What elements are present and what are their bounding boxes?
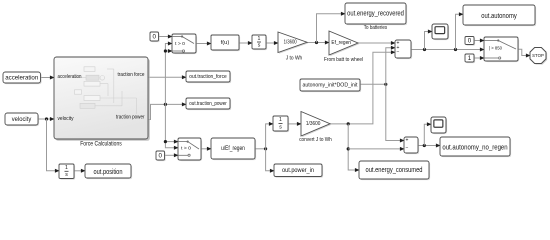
svg-text:1/3600: 1/3600 (306, 121, 321, 127)
svg-text:autonomy_init*DOD_init: autonomy_init*DOD_init (303, 82, 358, 88)
svg-text:s: s (279, 124, 282, 130)
svg-text:acceleration: acceleration (5, 74, 38, 81)
svg-text:velocity: velocity (58, 116, 74, 122)
svg-text:out.energy_recovered: out.energy_recovered (347, 10, 404, 17)
svg-text:0: 0 (159, 152, 163, 159)
svg-text:t > 0: t > 0 (181, 146, 192, 151)
svg-text:Force Calculations: Force Calculations (80, 140, 122, 147)
svg-text:To batteries: To batteries (364, 25, 387, 31)
svg-text:s: s (65, 172, 68, 178)
svg-text:1: 1 (258, 36, 261, 42)
svg-text:acceleration: acceleration (58, 74, 82, 80)
svg-text:traction force: traction force (118, 72, 145, 78)
svg-text:out.position: out.position (94, 167, 123, 176)
svg-text:0: 0 (153, 33, 157, 40)
svg-text:t > 0: t > 0 (175, 41, 186, 46)
svg-text:velocity: velocity (12, 116, 32, 123)
svg-text:u/Ef_regen: u/Ef_regen (221, 146, 245, 152)
svg-text:From batt to wheel: From batt to wheel (324, 57, 363, 63)
svg-text:convert J to Wh: convert J to Wh (299, 137, 332, 143)
svg-text:out.power_in: out.power_in (282, 167, 314, 174)
svg-text:out.autonomy_no_regen: out.autonomy_no_regen (442, 142, 507, 151)
svg-text:−: − (397, 49, 400, 55)
svg-text:−: − (406, 146, 409, 152)
svg-text:J to Wh: J to Wh (286, 56, 303, 62)
svg-text:out.traction_force: out.traction_force (189, 74, 227, 80)
svg-text:out.traction_power: out.traction_power (189, 101, 227, 107)
svg-text:0: 0 (468, 37, 472, 44)
svg-text:out.autonomy: out.autonomy (481, 11, 517, 20)
svg-text:out.energy_consumed: out.energy_consumed (366, 167, 423, 174)
svg-text:+: + (406, 138, 409, 144)
svg-text:Ef_regen: Ef_regen (331, 40, 351, 46)
svg-text:1/3600: 1/3600 (284, 39, 297, 45)
svg-text:1: 1 (65, 165, 68, 171)
svg-text:traction power: traction power (116, 114, 145, 120)
svg-text:1: 1 (279, 117, 282, 123)
svg-text:STOP: STOP (532, 53, 544, 58)
svg-text:f(u): f(u) (221, 40, 230, 46)
svg-text:1: 1 (468, 55, 472, 62)
svg-text:| > 850: | > 850 (489, 46, 502, 52)
svg-text:s: s (258, 43, 261, 49)
